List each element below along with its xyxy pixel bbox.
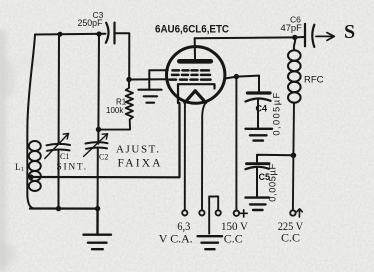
- svg-text:0,005µF: 0,005µF: [271, 91, 281, 135]
- tube V1 6AU6/6CL6 envelope: [167, 47, 225, 104]
- inductor RFC: [288, 37, 301, 102]
- wire grid junction to tube grid: [129, 78, 168, 80]
- wire heater lead 1: [184, 101, 186, 210]
- svg-text:C.C: C.C: [281, 230, 300, 244]
- tube cathode: [178, 84, 215, 103]
- terminal 150V: [234, 211, 239, 216]
- wire C3 right plate to grid column: [114, 33, 129, 79]
- wire chassis terminal hook to ground: [209, 197, 218, 234]
- node screen / 150V: [234, 74, 239, 79]
- svg-text:SINT.: SINT.: [57, 163, 88, 173]
- wire left rail bottom to bus: [27, 193, 33, 208]
- svg-text:C.C: C.C: [224, 232, 243, 246]
- wire suppressor to ground: [149, 70, 168, 89]
- node plate wire / C6 / RFC: [292, 35, 297, 40]
- wire bottom bus: [30, 207, 98, 209]
- ground (C5): [246, 198, 270, 210]
- svg-text:C2: C2: [99, 153, 108, 162]
- wire left rail down to L1: [27, 35, 35, 141]
- label + (150V): [240, 210, 247, 217]
- terminal 6.3V b: [199, 210, 204, 215]
- terminal chassis: [216, 210, 221, 215]
- svg-text:RFC: RFC: [304, 75, 324, 86]
- wire output arrow: [316, 35, 334, 37]
- tube grid 1 (control) dashes: [170, 78, 211, 81]
- wire screen grid to C4: [225, 76, 260, 79]
- terminal 6.3V a: [182, 210, 187, 215]
- ground (suppressor): [139, 90, 162, 103]
- wire C5 to ground: [256, 168, 258, 196]
- node grid junction (C3 / R1 / grid): [126, 77, 131, 82]
- wire plate lead up: [194, 38, 196, 59]
- svg-text:250pF: 250pF: [78, 18, 104, 28]
- scan shading left edge: [0, 30, 44, 272]
- tube grid 2 (screen) dashes: [172, 74, 210, 77]
- tube heater: [185, 91, 206, 103]
- variable capacitor C2: [84, 134, 108, 157]
- wire C2 column lower: [97, 149, 99, 209]
- node bottom bus / C2 / ground: [95, 206, 100, 211]
- wire C1 column upper: [58, 34, 60, 143]
- wire heater lead 2: [202, 103, 205, 210]
- wire C1 column lower: [58, 151, 60, 209]
- capacitor C3: [106, 23, 109, 43]
- wire cathode tap (L1 tap to tube cathode): [31, 103, 180, 177]
- svg-text:0,005µF: 0,005µF: [268, 163, 278, 202]
- wire RFC to 225V terminal: [293, 103, 294, 211]
- wire plate to C6 (top wire): [195, 36, 295, 39]
- inductor L1: [27, 140, 41, 193]
- ground (chassis terminal): [198, 236, 222, 249]
- svg-text:S: S: [344, 21, 355, 43]
- label arrow (225V): [297, 209, 303, 217]
- wire 150V drop: [235, 77, 237, 211]
- ground (C4): [246, 129, 273, 141]
- node bottom bus / C1: [56, 206, 61, 211]
- svg-text:47pF: 47pF: [281, 22, 303, 33]
- node top bus / C2 / C3 junction: [96, 31, 101, 36]
- variable capacitor C1: [45, 134, 70, 159]
- svg-text:C1: C1: [60, 152, 69, 161]
- svg-text:1: 1: [21, 166, 24, 173]
- svg-text:V C.A.: V C.A.: [159, 232, 193, 246]
- node top bus / C1 junction: [58, 32, 63, 37]
- capacitor C5: [257, 155, 293, 163]
- svg-text:AJUST.: AJUST.: [116, 144, 161, 156]
- svg-text:100k: 100k: [106, 106, 124, 115]
- wire C2 junction to plates: [97, 130, 99, 144]
- svg-text:L: L: [15, 162, 21, 172]
- node RFC line / C5: [291, 153, 297, 159]
- wire top-left horizontal (L1/C1/C2 top bus to C3): [35, 33, 106, 36]
- wire C2 column upper: [97, 34, 100, 130]
- node L1 tap: [28, 174, 33, 179]
- resistor R1 100k: [99, 80, 133, 130]
- tube plate: [179, 59, 211, 64]
- ground (main tank ground): [84, 209, 112, 250]
- wire C4 to ground: [257, 100, 259, 129]
- tube grid 3 (suppressor) dashes: [173, 69, 210, 72]
- svg-text:6AU6,6CL6,ETC: 6AU6,6CL6,ETC: [155, 24, 229, 36]
- svg-text:FAIXA: FAIXA: [118, 158, 163, 170]
- capacitor C6: [295, 36, 305, 38]
- terminal 225V: [290, 210, 295, 215]
- capacitor C4: [258, 76, 260, 91]
- node R1 bottom / C2 column: [96, 127, 101, 132]
